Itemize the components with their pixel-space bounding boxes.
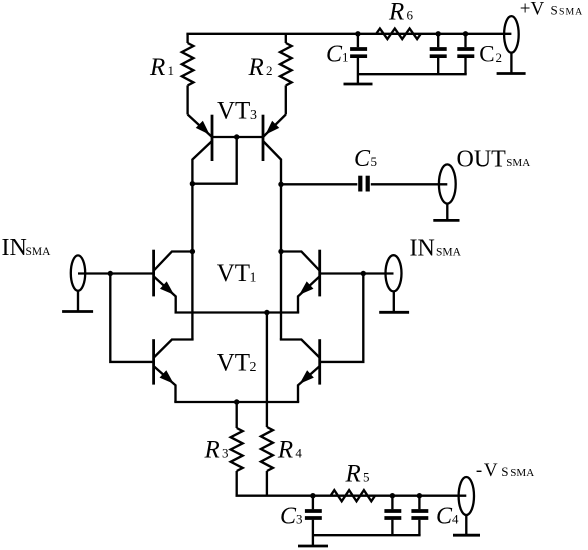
resistor R1 xyxy=(182,34,194,115)
label R1 xyxy=(149,54,174,81)
svg-text:3: 3 xyxy=(296,512,303,527)
wire C5 to OUT connector xyxy=(371,183,448,185)
svg-text:IN: IN xyxy=(2,235,27,261)
svg-text:3: 3 xyxy=(222,446,229,461)
transistor VT3 right (PNP) xyxy=(263,115,286,340)
svg-text:IN: IN xyxy=(410,235,435,261)
svg-text:SMA: SMA xyxy=(559,6,583,17)
capacitor C3 xyxy=(305,496,322,546)
svg-text:R: R xyxy=(277,437,293,464)
node R3 tap xyxy=(234,399,239,404)
svg-text:1: 1 xyxy=(342,50,349,65)
resistor R5 xyxy=(331,490,375,501)
svg-text:S: S xyxy=(501,464,508,479)
svg-text:2: 2 xyxy=(250,360,257,375)
wire output line xyxy=(281,183,357,185)
node IN left junction xyxy=(108,271,113,276)
label R4 xyxy=(277,437,303,464)
label VT1 xyxy=(217,260,257,287)
svg-text:C: C xyxy=(354,146,371,172)
node VT1 right collector xyxy=(278,249,283,254)
label C4 xyxy=(436,504,459,530)
transistor VT3 left (PNP) xyxy=(188,115,212,340)
label C5 xyxy=(354,146,377,172)
label R2 xyxy=(248,54,273,81)
capacitor C1 xyxy=(350,34,367,84)
svg-text:R: R xyxy=(388,0,404,25)
node R4 tap xyxy=(264,310,269,315)
connector IN left SMA xyxy=(71,255,85,311)
transistor VT1 right (NPN) xyxy=(281,250,320,313)
svg-text:OUT: OUT xyxy=(457,147,507,173)
svg-text:1: 1 xyxy=(168,63,175,78)
transistor VT1 left (NPN) xyxy=(154,250,193,313)
connector +VS SMA xyxy=(504,16,519,73)
ground below C1 xyxy=(344,83,373,86)
resistor R4 xyxy=(261,313,273,496)
wire VT1 emitter rail xyxy=(175,311,300,313)
svg-text:V: V xyxy=(484,460,498,481)
svg-text:2: 2 xyxy=(496,50,503,65)
label VT2 xyxy=(217,350,257,377)
label R6 xyxy=(388,0,414,25)
wire top supply rail xyxy=(186,33,511,35)
svg-text:C: C xyxy=(326,42,343,68)
label C1 xyxy=(326,42,349,68)
label -VS SMA xyxy=(476,460,534,481)
capacitor C4 xyxy=(411,496,428,536)
capacitor C5 xyxy=(360,176,367,192)
svg-text:R: R xyxy=(204,437,220,464)
svg-text:C: C xyxy=(280,504,297,530)
label R5 xyxy=(345,461,370,488)
label R3 xyxy=(204,437,229,464)
node C4 tap xyxy=(417,493,422,498)
wire VT3 base rail xyxy=(212,136,263,138)
svg-text:R: R xyxy=(149,54,165,81)
svg-text:R: R xyxy=(248,54,264,81)
wire bottom supply rail xyxy=(236,495,467,497)
transistor VT2 right (NPN) xyxy=(280,339,320,402)
capacitor C2 xyxy=(457,34,474,74)
svg-text:SMA: SMA xyxy=(510,467,534,479)
svg-text:5: 5 xyxy=(371,154,378,169)
ground below C3 xyxy=(298,545,328,548)
label C3 xyxy=(280,504,303,530)
svg-text:2: 2 xyxy=(266,63,273,78)
svg-text:3: 3 xyxy=(250,108,257,123)
ground below IN right xyxy=(379,311,409,314)
wire IN right down to VT2 base xyxy=(320,274,364,362)
svg-text:SMA: SMA xyxy=(506,157,530,169)
node C3 tap xyxy=(310,493,315,498)
wire bottom decoupling return rail xyxy=(313,534,421,536)
svg-text:C: C xyxy=(436,504,453,530)
wire base-collector tie xyxy=(192,137,236,184)
svg-text:S: S xyxy=(551,2,558,17)
resistor R2 xyxy=(280,34,292,115)
svg-text:4: 4 xyxy=(295,446,302,461)
label C2 xyxy=(479,41,502,66)
node VT1 left collector xyxy=(190,249,195,254)
svg-text:1: 1 xyxy=(250,271,257,286)
label +VS SMA xyxy=(520,0,583,19)
connector -VS SMA xyxy=(459,477,474,535)
capacitor bottom middle xyxy=(384,496,401,536)
svg-text:+V: +V xyxy=(520,0,545,19)
svg-text:VT: VT xyxy=(217,260,250,287)
ground below +VS xyxy=(497,72,526,75)
connector OUT SMA xyxy=(439,164,456,220)
label OUT SMA xyxy=(457,147,531,173)
svg-text:VT: VT xyxy=(217,98,250,125)
resistor R3 xyxy=(231,402,243,496)
ground below -VS xyxy=(453,534,480,537)
svg-text:C: C xyxy=(479,41,494,66)
svg-text:SMA: SMA xyxy=(436,246,462,258)
svg-text:-: - xyxy=(476,460,482,481)
label IN SMA right xyxy=(410,235,462,261)
svg-text:4: 4 xyxy=(452,512,459,527)
resistor R6 xyxy=(376,29,421,40)
connector IN right SMA xyxy=(386,255,402,312)
svg-text:5: 5 xyxy=(363,470,370,485)
wire IN left down to VT2 base xyxy=(110,274,153,362)
capacitor top middle xyxy=(430,34,447,74)
svg-text:VT: VT xyxy=(217,350,250,377)
node bottom mid-cap tap xyxy=(390,493,395,498)
wire IN left to VT1 base xyxy=(78,272,154,274)
node left collector tie xyxy=(190,181,195,186)
node IN right junction xyxy=(361,271,366,276)
ground below OUT xyxy=(433,219,459,222)
svg-text:6: 6 xyxy=(407,7,414,22)
svg-text:SMA: SMA xyxy=(26,246,52,258)
wire VT1 right base xyxy=(320,272,394,274)
label IN SMA left xyxy=(2,235,52,261)
node top rail C1 tap xyxy=(355,31,360,36)
svg-text:R: R xyxy=(345,461,361,488)
transistor VT2 left (NPN) xyxy=(154,339,194,402)
node top rail C2 tap xyxy=(463,31,468,36)
label VT3 xyxy=(217,98,257,125)
wire VT2 emitter rail xyxy=(174,401,299,403)
node VT3 base junction xyxy=(234,134,239,139)
node OUT tap xyxy=(278,182,283,187)
ground below IN left xyxy=(62,310,93,313)
wire top decoupling return rail xyxy=(358,73,467,75)
node top rail mid-cap tap xyxy=(436,31,441,36)
